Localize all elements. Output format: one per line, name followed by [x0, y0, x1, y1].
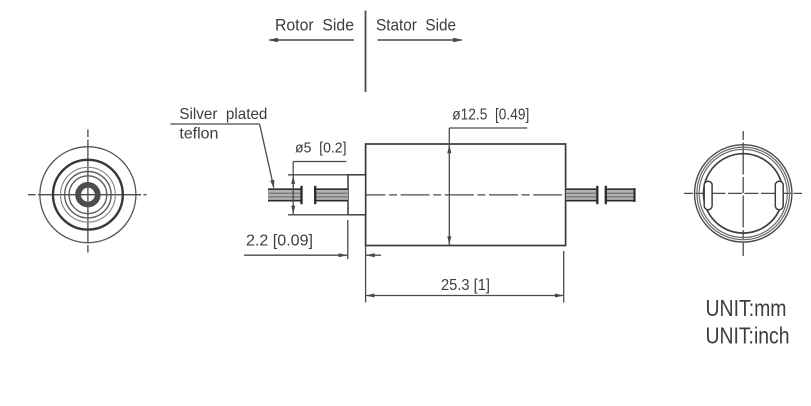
svg-text:ø5 [0.2]: ø5 [0.2] [295, 140, 347, 157]
svg-text:UNIT:inch: UNIT:inch [706, 323, 790, 349]
svg-text:Stator Side: Stator Side [376, 17, 456, 35]
svg-text:ø12.5 [0.49]: ø12.5 [0.49] [452, 107, 529, 124]
svg-text:Silver plated: Silver plated [179, 106, 267, 123]
svg-text:2.2 [0.09]: 2.2 [0.09] [246, 233, 313, 250]
svg-text:teflon: teflon [179, 126, 218, 143]
svg-text:25.3 [1]: 25.3 [1] [441, 277, 490, 294]
svg-text:Rotor Side: Rotor Side [275, 17, 354, 35]
svg-text:UNIT:mm: UNIT:mm [706, 295, 787, 321]
